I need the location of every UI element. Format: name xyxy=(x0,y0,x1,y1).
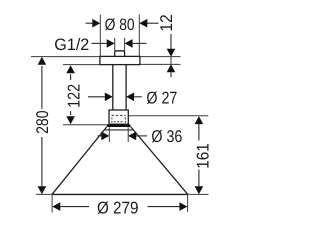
dimension Ø 279 left line xyxy=(60,206,89,208)
hidden line: internal thread top xyxy=(112,114,126,116)
svg-text:G1/2: G1/2 xyxy=(54,36,89,54)
svg-text:Ø 27: Ø 27 xyxy=(146,88,177,107)
wire: extension line left of Ø80 dimension xyxy=(99,15,101,57)
dimension Ø 80 left tail xyxy=(86,22,94,24)
thread stub G1/2 xyxy=(115,51,125,57)
pipe right edge xyxy=(125,64,127,110)
dimension 161 upper segment xyxy=(198,124,200,140)
dimension Ø 279 right line xyxy=(148,206,180,208)
dimension G1/2 left tail xyxy=(92,42,107,44)
cone right diagonal xyxy=(131,127,188,194)
wire: stub left extension xyxy=(114,38,116,51)
wire: Ø279 right extension xyxy=(187,195,189,212)
flange band (black) xyxy=(107,124,131,127)
dimension Ø 80 right arrow xyxy=(139,19,147,28)
dimension 12 down arrow xyxy=(167,49,176,57)
dimension 161 down arrow xyxy=(195,186,204,194)
dimension G1/2 right tail xyxy=(133,42,147,44)
dimension Ø 27 left arrow xyxy=(105,93,113,102)
dimension Ø 27 left tail xyxy=(88,96,105,98)
dimension 12 lower tail xyxy=(170,72,172,77)
dimension 122 up arrow xyxy=(66,65,75,73)
connector nut box xyxy=(109,110,128,124)
dimension 280 up arrow xyxy=(38,57,47,65)
hidden line: internal bottom curve xyxy=(114,121,124,123)
cone left diagonal xyxy=(52,127,107,194)
svg-text:161: 161 xyxy=(194,143,213,169)
cone seam line xyxy=(104,129,133,131)
wire: extension line right of Ø80 dimension xyxy=(138,15,140,57)
wire: Ø36 right extension xyxy=(127,127,129,142)
svg-text:122: 122 xyxy=(64,84,83,108)
wire: stub right extension xyxy=(124,38,126,51)
dimension 12 upper tail xyxy=(170,34,172,49)
wire: plate top extension to right xyxy=(140,56,181,58)
dimension Ø 36 right arrow xyxy=(128,132,136,141)
dimension 280 lower segment xyxy=(41,137,43,186)
svg-text:280: 280 xyxy=(33,110,52,134)
hidden line: internal right xyxy=(124,118,126,123)
dimension 280 upper segment xyxy=(41,66,43,109)
wire: 122 bottom extension line xyxy=(63,124,107,126)
dimension Ø 36 left tail xyxy=(98,135,102,137)
dimension Ø 279 right arrow xyxy=(179,202,187,211)
dimension 12 up arrow xyxy=(167,64,176,72)
wire: 161 top extension line xyxy=(128,115,208,117)
cone bottom rim xyxy=(52,193,188,195)
wire: rim extension right (161) xyxy=(188,193,209,195)
dimension Ø 279 left arrow xyxy=(52,202,60,211)
ceiling plate (rose Ø80) xyxy=(100,56,140,64)
dimension 122 lower segment xyxy=(70,111,72,115)
wire: Ø36 left extension xyxy=(108,127,110,142)
wire: plate bottom extension to left (for 122) xyxy=(63,64,100,66)
wire: plate top extension to left (for 280) xyxy=(31,56,100,58)
dimension Ø 80 right tail xyxy=(146,22,158,24)
wire: plate bottom extension to right xyxy=(140,63,181,65)
dimension Ø 36 left arrow xyxy=(101,132,109,141)
svg-text:Ø 36: Ø 36 xyxy=(151,127,182,146)
dimension 280 down arrow xyxy=(38,186,47,194)
svg-text:12: 12 xyxy=(157,14,176,32)
dimension 122 upper segment xyxy=(70,74,72,80)
dimension Ø 27 right tail xyxy=(134,96,142,98)
dimension Ø 27 right arrow xyxy=(126,93,134,102)
pipe left edge xyxy=(112,64,114,110)
dimension 12 mid segment xyxy=(170,57,172,65)
dimension 161 up arrow xyxy=(195,116,204,124)
dimension Ø 36 right tail xyxy=(136,135,147,137)
dimension G1/2 right arrow xyxy=(125,39,133,48)
svg-text:Ø 279: Ø 279 xyxy=(97,199,139,218)
dimension 161 lower segment xyxy=(198,170,200,187)
wire: rim extension left (280) xyxy=(36,193,52,195)
wire: Ø279 left extension xyxy=(51,195,53,213)
hidden line: internal left xyxy=(111,118,113,123)
svg-text:Ø 80: Ø 80 xyxy=(105,16,135,34)
dimension 122 down arrow xyxy=(66,116,75,124)
dimension Ø 80 left arrow xyxy=(92,19,100,28)
dimension G1/2 left arrow xyxy=(107,39,115,48)
